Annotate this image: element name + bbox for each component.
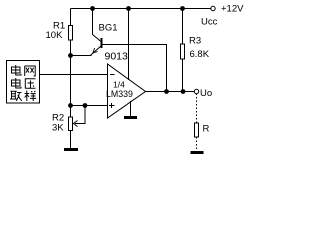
- wire sampling vertical (junction to R2 top): [70, 56, 72, 106]
- label 取样 (drawn glyphs): [10, 91, 36, 102]
- label 电压 (drawn glyphs): [12, 78, 36, 89]
- wire base feedback (base to output node): [103, 45, 167, 92]
- svg-text:10K: 10K: [46, 30, 64, 41]
- node collector junction on rail: [90, 6, 95, 11]
- terminal +12V (open circle): [211, 6, 215, 10]
- op-amp U1 1/4 LM339: [108, 64, 146, 118]
- wire op-amp power pin: [128, 9, 130, 81]
- wire op-amp ground pin: [130, 101, 132, 116]
- plus input mark: [109, 103, 115, 108]
- svg-text:Ucc: Ucc: [201, 17, 218, 28]
- emitter wire: [71, 55, 92, 57]
- svg-text:R3: R3: [189, 36, 201, 47]
- wiper of R2: [74, 106, 86, 127]
- ground (below R2): [64, 148, 78, 151]
- resistor R1: [69, 9, 73, 56]
- svg-text:6.8K: 6.8K: [190, 49, 210, 60]
- node output/R3 junction: [181, 89, 186, 94]
- svg-text:LM339: LM339: [106, 89, 133, 99]
- transistor Q1 BG1 9013: [71, 9, 103, 56]
- node R1/emitter junction: [68, 53, 73, 58]
- svg-text:Uo: Uo: [200, 88, 212, 99]
- wire +12V top rail: [71, 8, 212, 10]
- svg-text:1/4: 1/4: [113, 80, 125, 90]
- node R3 top on rail: [180, 6, 185, 11]
- node A (R2 top): [68, 103, 73, 108]
- node power pin on rail: [126, 6, 131, 11]
- wire inverting input (box to op-amp): [40, 74, 108, 76]
- base bar: [101, 38, 103, 48]
- minus input mark: [110, 74, 115, 76]
- ground (below R): [191, 151, 204, 154]
- terminal Uo (open circle): [194, 89, 198, 93]
- block mains voltage sampling box: [7, 61, 40, 104]
- svg-text:+12V: +12V: [221, 4, 244, 15]
- resistor R (load, dashed connection): [195, 94, 199, 151]
- svg-text:R: R: [203, 124, 210, 135]
- collector wire: [92, 9, 94, 35]
- svg-text:9013: 9013: [105, 51, 129, 63]
- svg-text:3K: 3K: [52, 123, 64, 134]
- svg-text:BG1: BG1: [99, 23, 118, 34]
- wire non-inverting input (node A to op-amp): [71, 105, 108, 107]
- ground (op-amp): [124, 116, 137, 119]
- node output/base junction: [164, 89, 169, 94]
- node B (wiper tie): [83, 103, 88, 108]
- label 电网 (drawn glyphs): [12, 65, 36, 76]
- resistor R3: [181, 9, 185, 92]
- potentiometer R2: [69, 106, 73, 149]
- wire output: [146, 91, 195, 93]
- emitter with arrow: [91, 46, 102, 55]
